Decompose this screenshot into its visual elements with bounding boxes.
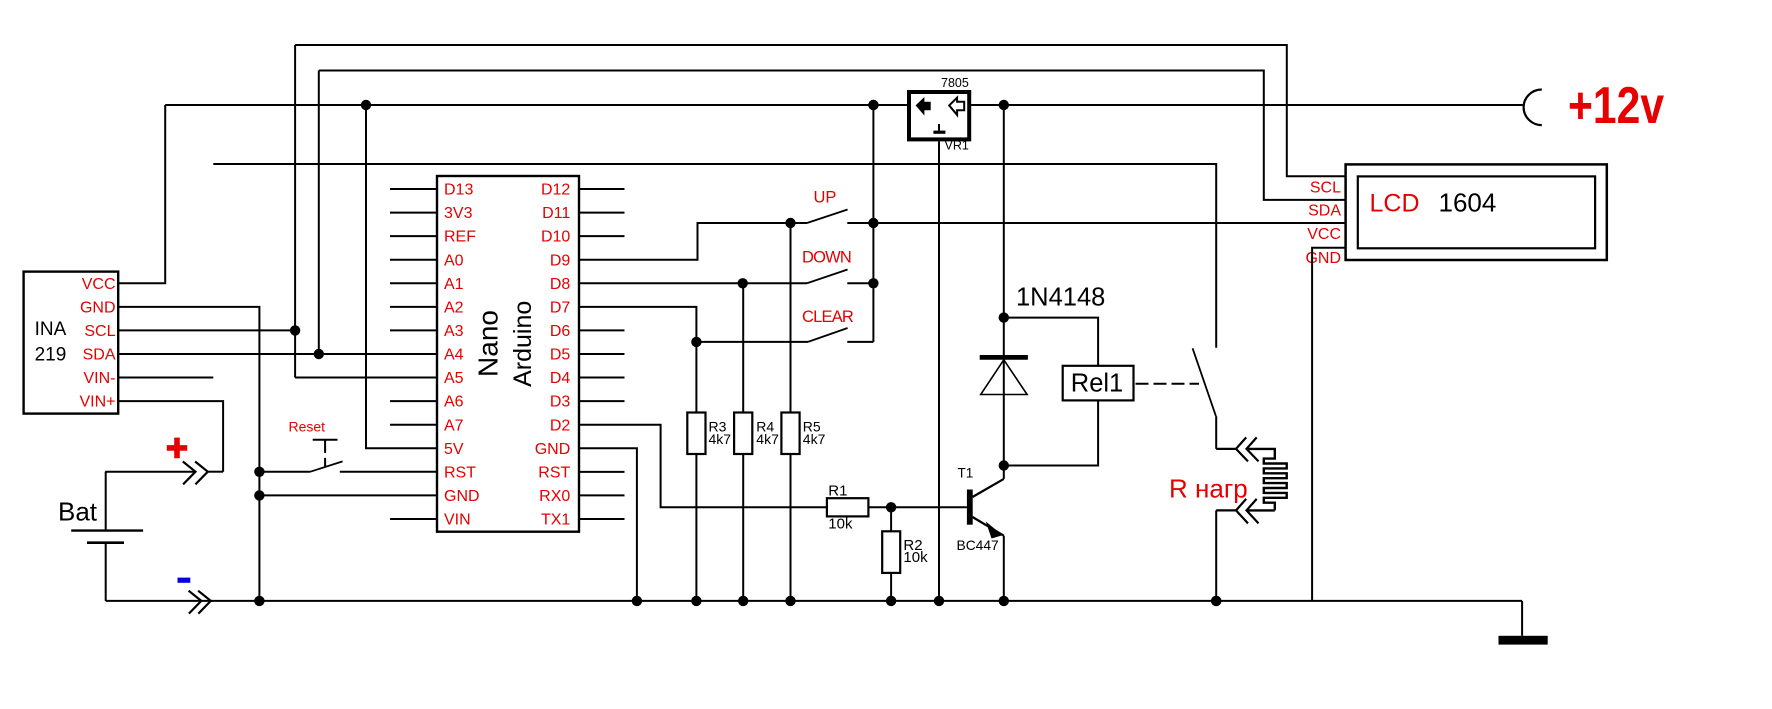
svg-text:R нагр: R нагр bbox=[1169, 474, 1248, 504]
svg-text:4k7: 4k7 bbox=[756, 431, 779, 447]
svg-text:A4: A4 bbox=[444, 347, 464, 364]
svg-text:D4: D4 bbox=[550, 370, 571, 387]
svg-text:R1: R1 bbox=[828, 483, 847, 500]
svg-text:INA: INA bbox=[35, 319, 67, 340]
svg-text:VIN-: VIN- bbox=[84, 370, 116, 387]
svg-text:CLEAR: CLEAR bbox=[802, 308, 854, 326]
svg-text:D13: D13 bbox=[444, 182, 473, 199]
svg-text:A0: A0 bbox=[444, 252, 464, 269]
svg-text:Reset: Reset bbox=[289, 419, 326, 435]
svg-text:D11: D11 bbox=[542, 205, 570, 222]
svg-text:D6: D6 bbox=[550, 323, 571, 340]
svg-text:4k7: 4k7 bbox=[709, 431, 732, 447]
svg-text:D9: D9 bbox=[550, 252, 571, 269]
svg-text:D8: D8 bbox=[550, 276, 571, 293]
svg-text:10k: 10k bbox=[903, 549, 928, 566]
svg-text:SCL: SCL bbox=[84, 323, 115, 340]
svg-text:VIN+: VIN+ bbox=[79, 394, 115, 411]
svg-text:A1: A1 bbox=[444, 276, 464, 293]
svg-text:A6: A6 bbox=[444, 394, 464, 411]
svg-text:+12v: +12v bbox=[1568, 77, 1665, 135]
svg-text:SDA: SDA bbox=[1308, 202, 1341, 219]
svg-text:D3: D3 bbox=[550, 394, 571, 411]
svg-text:TX1: TX1 bbox=[541, 512, 570, 529]
svg-text:DOWN: DOWN bbox=[802, 249, 851, 267]
svg-text:10k: 10k bbox=[828, 516, 853, 533]
svg-text:D7: D7 bbox=[550, 299, 571, 316]
svg-text:RST: RST bbox=[538, 464, 570, 481]
svg-text:5V: 5V bbox=[444, 441, 464, 458]
svg-text:Bat: Bat bbox=[58, 497, 98, 527]
svg-text:D10: D10 bbox=[541, 229, 570, 246]
svg-text:SCL: SCL bbox=[1310, 179, 1341, 196]
svg-text:3V3: 3V3 bbox=[444, 205, 473, 222]
svg-text:A2: A2 bbox=[444, 299, 464, 316]
svg-text:D5: D5 bbox=[550, 347, 571, 364]
svg-text:RX0: RX0 bbox=[539, 488, 570, 505]
svg-text:RST: RST bbox=[444, 464, 476, 481]
svg-text:A5: A5 bbox=[444, 370, 464, 387]
svg-text:1604: 1604 bbox=[1439, 188, 1497, 218]
svg-text:VCC: VCC bbox=[1307, 226, 1341, 243]
svg-text:REF: REF bbox=[444, 229, 476, 246]
svg-text:A3: A3 bbox=[444, 323, 464, 340]
svg-text:UP: UP bbox=[814, 189, 837, 207]
svg-text:LCD: LCD bbox=[1370, 189, 1420, 217]
svg-text:GND: GND bbox=[1305, 250, 1341, 267]
svg-text:D2: D2 bbox=[550, 417, 571, 434]
svg-text:VR1: VR1 bbox=[945, 138, 969, 152]
svg-text:1N4148: 1N4148 bbox=[1016, 284, 1105, 312]
svg-text:219: 219 bbox=[35, 345, 67, 366]
svg-text:Nano: Nano bbox=[473, 310, 504, 377]
svg-text:VIN: VIN bbox=[444, 512, 471, 529]
svg-text:4k7: 4k7 bbox=[803, 431, 826, 447]
svg-text:A7: A7 bbox=[444, 417, 464, 434]
svg-text:BC447: BC447 bbox=[957, 538, 999, 553]
svg-text:7805: 7805 bbox=[941, 76, 969, 90]
svg-text:Arduino: Arduino bbox=[509, 301, 537, 387]
svg-text:VCC: VCC bbox=[82, 276, 116, 293]
svg-text:Rel1: Rel1 bbox=[1071, 369, 1123, 397]
svg-text:GND: GND bbox=[535, 441, 571, 458]
svg-text:GND: GND bbox=[80, 299, 116, 316]
svg-text:GND: GND bbox=[444, 488, 480, 505]
svg-text:D12: D12 bbox=[541, 182, 570, 199]
svg-text:SDA: SDA bbox=[83, 347, 116, 364]
svg-text:T1: T1 bbox=[958, 465, 974, 480]
